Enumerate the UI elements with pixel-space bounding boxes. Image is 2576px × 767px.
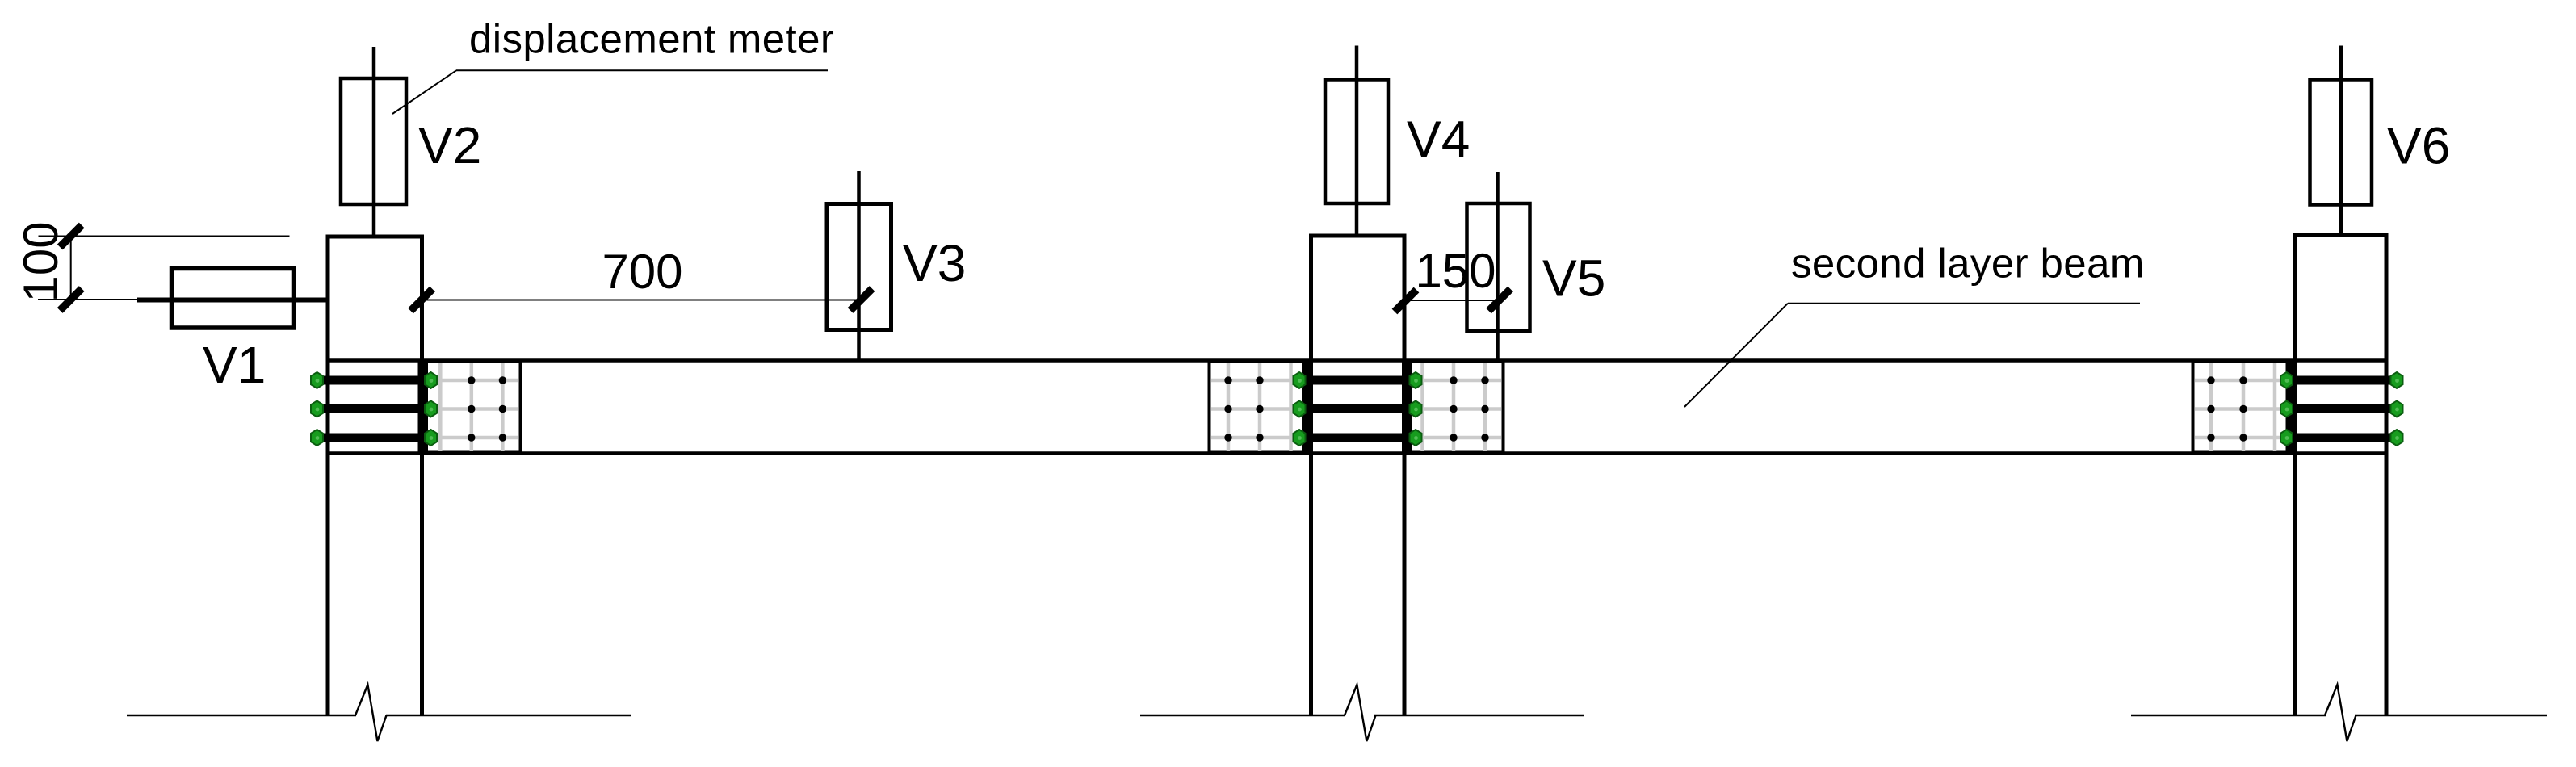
svg-text:second layer beam: second layer beam: [1791, 241, 2145, 287]
svg-text:100: 100: [14, 221, 68, 302]
svg-text:V5: V5: [1542, 249, 1605, 308]
joint 1 anchor strip: [418, 362, 429, 452]
dimension 150: [1395, 244, 1511, 312]
svg-text:700: 700: [602, 245, 682, 299]
svg-text:V6: V6: [2387, 117, 2450, 175]
break symbol column 1: [356, 714, 386, 718]
hatch box left of joint 2: [1210, 362, 1310, 452]
svg-text:V3: V3: [903, 234, 966, 292]
hatch box right of joint 1: [421, 362, 521, 452]
displacement meter V5 box: [1467, 172, 1530, 360]
joint 3 rebar bars: [2285, 376, 2398, 442]
joint 3 anchor strip: [2286, 362, 2297, 452]
svg-text:V4: V4: [1407, 111, 1470, 169]
svg-text:V1: V1: [203, 336, 266, 394]
break symbol column 2: [1345, 714, 1374, 718]
green bolt heads joint 2: [1294, 372, 1422, 446]
ground line under column 3: [2131, 715, 2547, 716]
displacement meter V3 box: [827, 171, 892, 360]
ground line under column 1: [127, 715, 631, 716]
break symbol column 3: [2326, 714, 2355, 718]
leader and label: displacement meter: [392, 16, 834, 115]
leader and label: second layer beam: [1684, 241, 2145, 408]
dimension 100: [14, 221, 290, 310]
beam (second layer beam outline): [326, 361, 2388, 454]
displacement meter V2 box: [341, 47, 406, 237]
joint 2 rebar bars: [1300, 376, 1414, 442]
displacement meter V4 box: [1325, 46, 1388, 237]
column 3: [2293, 233, 2389, 715]
displacement meter V1 box: [38, 269, 326, 329]
svg-text:displacement meter: displacement meter: [469, 16, 834, 62]
column 2: [1309, 234, 1407, 716]
displacement meter V6 box: [2310, 46, 2373, 236]
joint 2 anchor strips: [1302, 362, 1312, 452]
green bolt heads joint 3: [2280, 372, 2403, 446]
ground line under column 2: [1140, 715, 1584, 716]
green bolt heads joint 1: [311, 372, 437, 446]
hatch box left of joint 3: [2193, 362, 2295, 452]
hatch box right of joint 2: [1405, 362, 1504, 452]
dimension 700: [411, 245, 873, 311]
svg-text:150: 150: [1415, 244, 1496, 298]
column 1: [326, 235, 425, 716]
joint 1 rebar bars: [316, 376, 429, 442]
svg-text:V2: V2: [418, 116, 481, 174]
